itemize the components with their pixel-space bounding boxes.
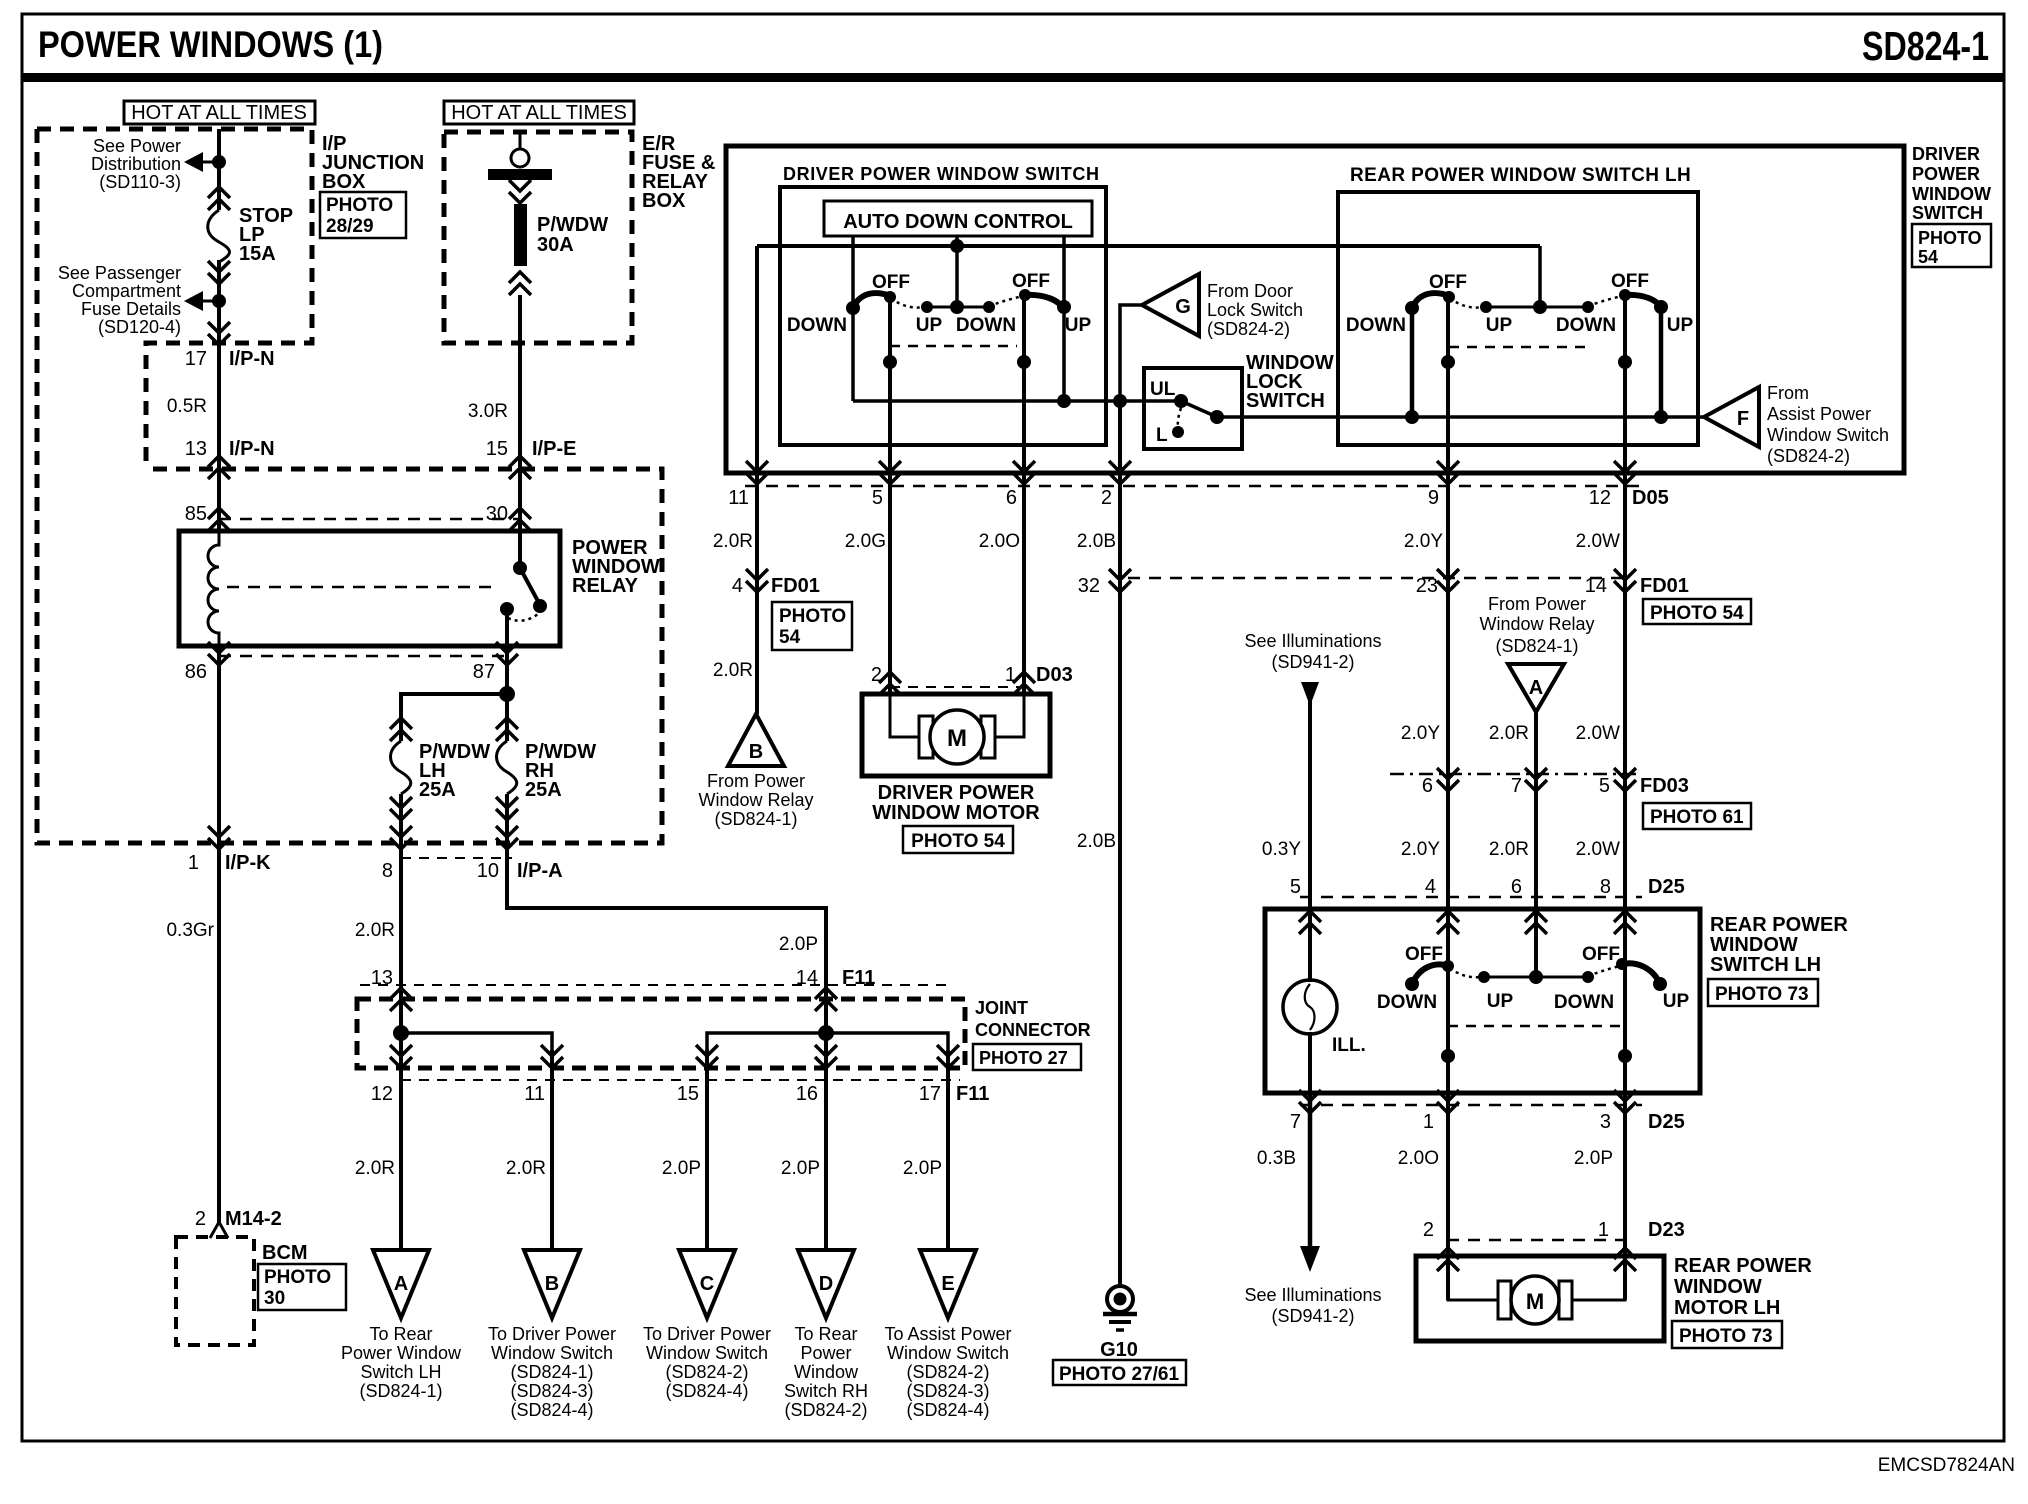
chevron pin 1 exit xyxy=(1437,1090,1459,1113)
node: G branch joins lower bus xyxy=(1113,394,1127,408)
triangle D (to rear power window switch RH) xyxy=(798,1250,854,1318)
rear top switch: DOWN contact xyxy=(1405,301,1419,315)
svg-text:2.0R: 2.0R xyxy=(713,531,753,552)
svg-text:DOWN: DOWN xyxy=(1556,315,1616,336)
svg-text:14: 14 xyxy=(1585,575,1607,597)
svg-text:0.3B: 0.3B xyxy=(1257,1148,1296,1169)
svg-text:30: 30 xyxy=(486,503,508,525)
rear bottom switch: wiper arc right xyxy=(1622,963,1660,984)
wire: 15 column down to triangle C xyxy=(705,1050,709,1250)
PHOTO 54 box (FD01) xyxy=(1643,599,1751,624)
wire: RH fuse to pin 10 xyxy=(505,794,509,843)
rear bottom switch: OFF contact right xyxy=(1616,958,1628,970)
svg-text:Window Switch: Window Switch xyxy=(887,1343,1009,1363)
switch labels OFF/DOWN/UP (driver) xyxy=(787,271,1092,336)
rear switch LH inner box (top) xyxy=(1338,192,1698,445)
driver switch right: UP contact xyxy=(1057,300,1071,314)
DRIVER POWER WINDOW MOTOR label xyxy=(872,782,1040,824)
driver/rear switch assembly outer box xyxy=(726,146,1904,473)
svg-text:Lock Switch: Lock Switch xyxy=(1207,300,1303,320)
svg-text:11: 11 xyxy=(524,1083,545,1105)
svg-text:OFF: OFF xyxy=(1611,271,1649,292)
chevron pin 11 xyxy=(541,1045,563,1068)
triangle B (from power window relay) xyxy=(728,714,784,766)
svg-text:PHOTO: PHOTO xyxy=(326,195,393,216)
dashed connector row D23 xyxy=(1447,1239,1627,1242)
wire: 16 column down to triangle D xyxy=(824,1033,828,1250)
svg-text:(SD824-3): (SD824-3) xyxy=(510,1381,593,1401)
rear bottom switch: dotted throw right xyxy=(1588,966,1620,976)
svg-text:DRIVER: DRIVER xyxy=(1912,144,1980,164)
node: link center joins 2.0R xyxy=(1529,970,1543,984)
svg-text:32: 32 xyxy=(1078,575,1100,597)
WINDOW LOCK SWITCH label xyxy=(1246,352,1334,412)
svg-text:(SD941-2): (SD941-2) xyxy=(1271,652,1354,672)
svg-text:BOX: BOX xyxy=(642,190,686,212)
svg-text:From Door: From Door xyxy=(1207,281,1293,301)
title bar separator xyxy=(22,73,2004,82)
svg-text:1: 1 xyxy=(1005,664,1016,686)
rear bottom switch: UP end right xyxy=(1653,977,1667,991)
chevron pin 14 F11 xyxy=(815,988,837,1011)
svg-text:5: 5 xyxy=(1290,876,1301,898)
rear top switch: OFF contact left xyxy=(1443,291,1455,303)
svg-text:OFF: OFF xyxy=(1012,271,1050,292)
svg-text:DOWN: DOWN xyxy=(1554,992,1614,1013)
I/P junction box upper dashed outline xyxy=(37,129,312,469)
driver switch left: wiper arc xyxy=(852,293,891,310)
chevron pin 16 xyxy=(815,1045,837,1068)
fuse STOP LP 15A xyxy=(208,187,230,284)
PHOTO 54 box (driver motor) xyxy=(903,826,1013,853)
svg-text:REAR POWER: REAR POWER xyxy=(1674,1255,1812,1277)
text: See Illuminations (SD941-2) top xyxy=(1244,631,1381,672)
text: From Power Window Relay (SD824-1) xyxy=(698,771,813,829)
svg-text:2.0R: 2.0R xyxy=(355,1158,395,1179)
svg-text:OFF: OFF xyxy=(872,272,910,293)
svg-text:Switch RH: Switch RH xyxy=(784,1381,868,1401)
text under triangle E xyxy=(884,1324,1011,1420)
svg-text:1: 1 xyxy=(1598,1219,1609,1241)
link bar between rear switches xyxy=(1486,306,1588,309)
svg-text:87: 87 xyxy=(473,661,495,683)
svg-text:2.0P: 2.0P xyxy=(1574,1148,1613,1169)
svg-text:12: 12 xyxy=(371,1083,393,1105)
svg-text:M: M xyxy=(947,725,967,752)
wire: 2.0P column through box xyxy=(1623,964,1627,1300)
wire: relay 86 down to I/P-K xyxy=(217,646,221,843)
dashed connector row D25 bottom xyxy=(1300,1104,1642,1107)
svg-text:15A: 15A xyxy=(239,243,276,265)
svg-text:(SD120-4): (SD120-4) xyxy=(98,317,181,337)
svg-text:POWER WINDOWS (1): POWER WINDOWS (1) xyxy=(38,24,383,65)
dashed row pins 8-10 xyxy=(401,857,512,859)
pin 14 F11 label xyxy=(796,967,876,989)
rear top switch: wiper arc right xyxy=(1625,295,1663,310)
node on 2.0Y column xyxy=(1441,355,1455,369)
svg-text:PHOTO 54: PHOTO 54 xyxy=(1650,603,1744,624)
svg-text:54: 54 xyxy=(779,627,801,648)
svg-text:BOX: BOX xyxy=(322,171,366,193)
chevron motor pin 1 xyxy=(1013,672,1035,695)
svg-text:EMCSD7824AN: EMCSD7824AN xyxy=(1878,1455,2015,1476)
arrow: see passenger compartment xyxy=(184,291,219,311)
svg-text:D25: D25 xyxy=(1648,1111,1685,1133)
svg-text:To Driver Power: To Driver Power xyxy=(643,1324,771,1344)
svg-text:2.0Y: 2.0Y xyxy=(1401,723,1440,744)
svg-text:JOINT: JOINT xyxy=(975,998,1028,1018)
svg-text:17: 17 xyxy=(185,348,207,370)
wire: 0.3B to illuminations xyxy=(1308,1093,1313,1250)
svg-text:See Passenger: See Passenger xyxy=(58,263,181,283)
dashed connector row FD01 xyxy=(1128,577,1630,580)
rear bottom switch: UP contact left xyxy=(1478,971,1490,983)
thin dashed row F11 top xyxy=(360,984,952,986)
svg-text:Window: Window xyxy=(794,1362,859,1382)
E/R FUSE & RELAY BOX label xyxy=(642,133,715,212)
svg-text:D23: D23 xyxy=(1648,1219,1685,1241)
BCM dashed box xyxy=(176,1237,254,1345)
node on wls line right xyxy=(1654,410,1668,424)
svg-text:2.0Y: 2.0Y xyxy=(1404,531,1443,552)
driver switch left: dotted throw xyxy=(891,298,925,308)
D03 pin labels xyxy=(871,664,1073,686)
svg-text:CONNECTOR: CONNECTOR xyxy=(975,1020,1091,1040)
svg-text:OFF: OFF xyxy=(1429,272,1467,293)
text: See Passenger Compartment Fuse Details (SD120-4) xyxy=(58,263,181,337)
text: From Power Window Relay (SD824-1) xyxy=(1479,594,1594,656)
svg-text:2.0R: 2.0R xyxy=(713,660,753,681)
wire: driver OFF-up column to pin 6 xyxy=(1022,295,1026,694)
svg-text:P/WDW: P/WDW xyxy=(537,214,608,236)
rear bottom switch: dotted throw left xyxy=(1450,968,1482,977)
svg-text:C: C xyxy=(700,1273,714,1295)
svg-text:2.0W: 2.0W xyxy=(1576,531,1620,552)
svg-text:SWITCH: SWITCH xyxy=(1246,390,1325,412)
HOT AT ALL TIMES label (left) xyxy=(124,101,315,124)
svg-text:DOWN: DOWN xyxy=(956,315,1016,336)
JOINT CONNECTOR label xyxy=(975,998,1091,1040)
svg-text:SWITCH LH: SWITCH LH xyxy=(1710,954,1821,976)
wire: fusible link to relay pin 30 xyxy=(518,295,522,531)
chevron motor pin 2 (rear) xyxy=(1437,1248,1459,1271)
svg-text:(SD824-1): (SD824-1) xyxy=(714,809,797,829)
svg-text:AUTO DOWN CONTROL: AUTO DOWN CONTROL xyxy=(843,211,1073,233)
driver switch right: dotted throw xyxy=(989,296,1023,306)
svg-text:Window Relay: Window Relay xyxy=(698,790,813,810)
node link center xyxy=(1533,300,1547,314)
label STOP LP 15A xyxy=(239,205,293,265)
wire: 12 column down to triangle A xyxy=(399,1033,403,1250)
chevron into rear box pin 5 xyxy=(1299,911,1321,934)
svg-text:G: G xyxy=(1175,296,1191,318)
svg-text:6: 6 xyxy=(1006,487,1017,509)
chevron motor pin 1 (rear) xyxy=(1614,1248,1636,1271)
node: power distribution tap xyxy=(212,155,226,169)
label P/WDW LH 25A xyxy=(419,741,490,801)
wire: lamp top feed xyxy=(1308,909,1312,982)
pin 14 FD01 label xyxy=(1585,575,1689,597)
node: joint bus right (14) xyxy=(818,1025,834,1041)
svg-text:Distribution: Distribution xyxy=(91,154,181,174)
svg-text:2: 2 xyxy=(1101,487,1112,509)
I/P junction box left/lower dashed outline xyxy=(37,129,662,843)
node: fuse feed split xyxy=(499,686,515,702)
svg-text:G10: G10 xyxy=(1100,1339,1138,1361)
chevron pin 11 exit xyxy=(746,461,768,484)
REAR POWER WINDOW SWITCH LH stack label xyxy=(1710,914,1848,976)
svg-text:PHOTO: PHOTO xyxy=(1918,228,1982,248)
svg-text:I/P-E: I/P-E xyxy=(532,438,576,460)
svg-text:(SD824-2): (SD824-2) xyxy=(1207,319,1290,339)
svg-text:PHOTO 54: PHOTO 54 xyxy=(911,831,1005,852)
svg-text:Assist Power: Assist Power xyxy=(1767,404,1871,424)
rear bottom switch: OFF contact left xyxy=(1442,960,1454,972)
svg-text:15: 15 xyxy=(486,438,508,460)
svg-text:Window Switch: Window Switch xyxy=(1767,425,1889,445)
svg-text:5: 5 xyxy=(872,487,883,509)
svg-text:15: 15 xyxy=(677,1083,699,1105)
svg-text:DRIVER POWER: DRIVER POWER xyxy=(878,782,1035,804)
svg-text:UP: UP xyxy=(1065,315,1092,336)
rear top switch: UP contact right xyxy=(1654,300,1668,314)
wire: 11 column down to triangle B xyxy=(550,1050,554,1250)
rear motor internal wire right xyxy=(1572,1256,1625,1300)
svg-text:D05: D05 xyxy=(1632,487,1669,509)
svg-text:Switch LH: Switch LH xyxy=(360,1362,441,1382)
pin 85 chevron xyxy=(208,508,230,531)
switch labels (rear bottom) xyxy=(1377,944,1690,1013)
PHOTO 73 box (switch) xyxy=(1708,979,1818,1006)
node 2.0O column xyxy=(1441,1049,1455,1063)
D23 pin labels xyxy=(1423,1219,1685,1241)
svg-text:To Rear: To Rear xyxy=(369,1324,432,1344)
triangle A (to rear power window switch LH) xyxy=(373,1250,429,1318)
chevron into rear box pin 6 xyxy=(1525,911,1547,934)
illumination lamp ILL xyxy=(1283,980,1366,1056)
pin 17 I/P-N xyxy=(185,348,275,370)
wire: bus 14 to 17 xyxy=(826,1033,948,1050)
node: UP column joins lower bus xyxy=(1057,394,1071,408)
svg-text:WINDOW: WINDOW xyxy=(1674,1276,1762,1298)
svg-text:To Assist Power: To Assist Power xyxy=(884,1324,1011,1344)
chevron into rear box pin 4 xyxy=(1437,911,1459,934)
wire: illumination feed 0.3Y xyxy=(1308,700,1312,980)
wire: center drop from main bus xyxy=(1538,246,1542,307)
driver switch left: UP contact xyxy=(921,301,933,313)
svg-text:0.5R: 0.5R xyxy=(167,396,207,417)
chevron pin 7 exit xyxy=(1299,1090,1321,1113)
svg-text:(SD824-2): (SD824-2) xyxy=(1767,446,1850,466)
svg-text:2.0O: 2.0O xyxy=(979,531,1020,552)
svg-text:2: 2 xyxy=(195,1208,206,1230)
svg-text:PHOTO 27: PHOTO 27 xyxy=(979,1048,1068,1068)
connector chevron pin 15 xyxy=(509,456,531,479)
svg-text:(SD824-1): (SD824-1) xyxy=(359,1381,442,1401)
svg-text:2.0P: 2.0P xyxy=(903,1158,942,1179)
PHOTO 54 box (pin 4) xyxy=(772,602,852,650)
pin 87 chevron xyxy=(496,642,518,665)
svg-text:28/29: 28/29 xyxy=(326,216,374,237)
F11 bottom pin labels xyxy=(371,1083,990,1105)
wire: pin 11 riser down to triangle B xyxy=(755,246,759,714)
wire: P/WDW RH fuse feed xyxy=(505,694,509,741)
svg-text:2.0R: 2.0R xyxy=(355,920,395,941)
dashed interlock row (driver) xyxy=(890,345,1017,348)
rear bottom switch: DOWN contact right xyxy=(1582,971,1594,983)
dashed connector row D25 top xyxy=(1300,896,1642,899)
E/R fuse & relay box dashed outline xyxy=(444,132,632,343)
rear top switch: UP contact left xyxy=(1480,301,1492,313)
wire: rear OFF right column down (2.0W) xyxy=(1623,295,1627,964)
svg-text:To Rear: To Rear xyxy=(794,1324,857,1344)
svg-text:D: D xyxy=(819,1273,833,1295)
svg-text:(SD110-3): (SD110-3) xyxy=(99,172,181,192)
I/P JUNCTION BOX label xyxy=(322,133,424,193)
FD03 pin labels xyxy=(1422,775,1689,797)
svg-text:6: 6 xyxy=(1422,775,1433,797)
joint connector dashed box xyxy=(357,999,965,1068)
POWER WINDOW RELAY label xyxy=(572,537,660,597)
chevron pin 12 xyxy=(390,1045,412,1068)
motor brush left xyxy=(919,716,933,758)
pin 30 chevron xyxy=(509,508,531,531)
dashed connector row 86-87 xyxy=(219,655,507,658)
svg-text:6: 6 xyxy=(1511,876,1522,898)
svg-text:2.0B: 2.0B xyxy=(1077,531,1116,552)
svg-text:WINDOW MOTOR: WINDOW MOTOR xyxy=(872,802,1040,824)
chevron motor pin 2 xyxy=(879,672,901,695)
node on wls line xyxy=(1405,410,1419,424)
svg-text:2.0W: 2.0W xyxy=(1576,723,1620,744)
pin 86 chevron xyxy=(208,642,230,665)
svg-text:M14-2: M14-2 xyxy=(225,1208,282,1230)
svg-text:Power: Power xyxy=(800,1343,851,1363)
svg-text:54: 54 xyxy=(1918,247,1938,267)
svg-text:ILL.: ILL. xyxy=(1332,1035,1366,1056)
svg-text:FD01: FD01 xyxy=(1640,575,1689,597)
triangle A (from power window relay) xyxy=(1508,664,1564,712)
text under triangle B xyxy=(488,1324,616,1420)
svg-text:2.0P: 2.0P xyxy=(781,1158,820,1179)
rear top switch: wiper arc left xyxy=(1411,293,1450,310)
svg-text:See Power: See Power xyxy=(93,136,181,156)
driver switch left: DOWN contact xyxy=(846,301,860,315)
wire: branch to P/WDW LH fuse xyxy=(401,694,507,741)
svg-text:UP: UP xyxy=(1487,991,1514,1012)
driver switch right: wiper arc xyxy=(1025,295,1065,310)
text under triangle D xyxy=(784,1324,868,1420)
dashed row D03 xyxy=(890,686,1024,688)
svg-text:8: 8 xyxy=(1600,876,1611,898)
rear bottom switch: wiper arc left xyxy=(1412,964,1449,984)
chevron pin 8 exit xyxy=(390,826,412,849)
wire: bus 14 to 15 xyxy=(707,1033,826,1050)
arrow: see power distribution xyxy=(184,152,219,172)
node on pin6 column xyxy=(1017,355,1031,369)
driver switch inner box xyxy=(780,187,1106,445)
svg-text:HOT AT ALL TIMES: HOT AT ALL TIMES xyxy=(131,102,307,124)
rear top switch: dotted throw right xyxy=(1588,296,1622,306)
svg-text:D03: D03 xyxy=(1036,664,1073,686)
wire: rear UP column xyxy=(1659,307,1664,417)
chevron pin 3 exit xyxy=(1614,1090,1636,1113)
svg-text:D25: D25 xyxy=(1648,876,1685,898)
window lock switch arm xyxy=(1181,401,1217,417)
node on 2.0W column xyxy=(1618,355,1632,369)
chevron pin 1 exit xyxy=(208,826,230,849)
svg-text:3.0R: 3.0R xyxy=(468,401,508,422)
dotted throw UL to L xyxy=(1178,408,1181,426)
svg-text:REAR POWER WINDOW SWITCH LH: REAR POWER WINDOW SWITCH LH xyxy=(1350,165,1691,186)
svg-text:2.0P: 2.0P xyxy=(662,1158,701,1179)
svg-text:3: 3 xyxy=(1600,1111,1611,1133)
relay switch xyxy=(500,531,547,646)
svg-text:RELAY: RELAY xyxy=(572,575,639,597)
rear power window switch LH box (bottom) xyxy=(1265,909,1700,1093)
wire: 0.3Gr BCM feed xyxy=(217,843,221,1222)
text: From Assist Power Window Switch (SD824-2) xyxy=(1767,383,1889,466)
DRIVER POWER WINDOW SWITCH right stack label xyxy=(1912,144,1991,223)
svg-text:Compartment: Compartment xyxy=(72,281,181,301)
chevron pin 5 FD03 xyxy=(1614,768,1636,791)
svg-text:I/P-A: I/P-A xyxy=(517,860,563,882)
triangle G xyxy=(1142,274,1199,336)
label P/WDW 30A xyxy=(537,214,608,256)
svg-text:11: 11 xyxy=(728,487,749,509)
svg-text:30: 30 xyxy=(264,1288,285,1309)
svg-text:(SD824-2): (SD824-2) xyxy=(906,1362,989,1382)
svg-text:B: B xyxy=(749,741,763,763)
wire color labels above D25 xyxy=(1262,839,1620,860)
arm contact xyxy=(1210,410,1224,424)
triangle F xyxy=(1704,387,1759,447)
svg-text:I/P-N: I/P-N xyxy=(229,348,275,370)
svg-text:85: 85 xyxy=(185,503,207,525)
wire: rear DOWN column xyxy=(1410,308,1415,417)
svg-text:4: 4 xyxy=(732,575,743,597)
svg-text:POWER: POWER xyxy=(1912,164,1980,184)
svg-text:I/P-K: I/P-K xyxy=(225,852,271,874)
connector fork at BCM xyxy=(210,1222,228,1238)
svg-text:30A: 30A xyxy=(537,234,574,256)
connector dashed row D05 xyxy=(745,485,1642,488)
svg-text:A: A xyxy=(394,1273,408,1295)
rear top switch: DOWN contact right xyxy=(1582,301,1594,313)
fuse P/WDW RH 25A xyxy=(496,718,518,820)
wire: relay 87 down to fuse node xyxy=(505,646,509,694)
svg-text:Window Relay: Window Relay xyxy=(1479,614,1594,634)
arrow from illuminations xyxy=(1301,682,1319,706)
connector: box A exit chevron xyxy=(208,322,230,345)
pin 4 FD01 label xyxy=(732,575,820,597)
svg-text:See Illuminations: See Illuminations xyxy=(1244,631,1381,651)
svg-text:1: 1 xyxy=(1423,1111,1434,1133)
svg-text:PHOTO 61: PHOTO 61 xyxy=(1650,807,1744,828)
rear bottom switch: DOWN end left xyxy=(1405,977,1419,991)
link bar between switches xyxy=(927,306,989,309)
pin labels row D05 xyxy=(728,487,1668,509)
PHOTO 30 box xyxy=(258,1264,346,1310)
svg-text:PHOTO 73: PHOTO 73 xyxy=(1715,984,1809,1005)
wire: lamp bottom to pin 7 xyxy=(1308,1032,1312,1093)
driver switch right: OFF contact xyxy=(1019,289,1031,301)
svg-text:13: 13 xyxy=(185,438,207,460)
svg-text:(SD824-4): (SD824-4) xyxy=(510,1400,593,1420)
svg-text:2.0Y: 2.0Y xyxy=(1401,839,1440,860)
svg-text:2.0R: 2.0R xyxy=(1489,723,1529,744)
svg-text:(SD824-4): (SD824-4) xyxy=(906,1400,989,1420)
